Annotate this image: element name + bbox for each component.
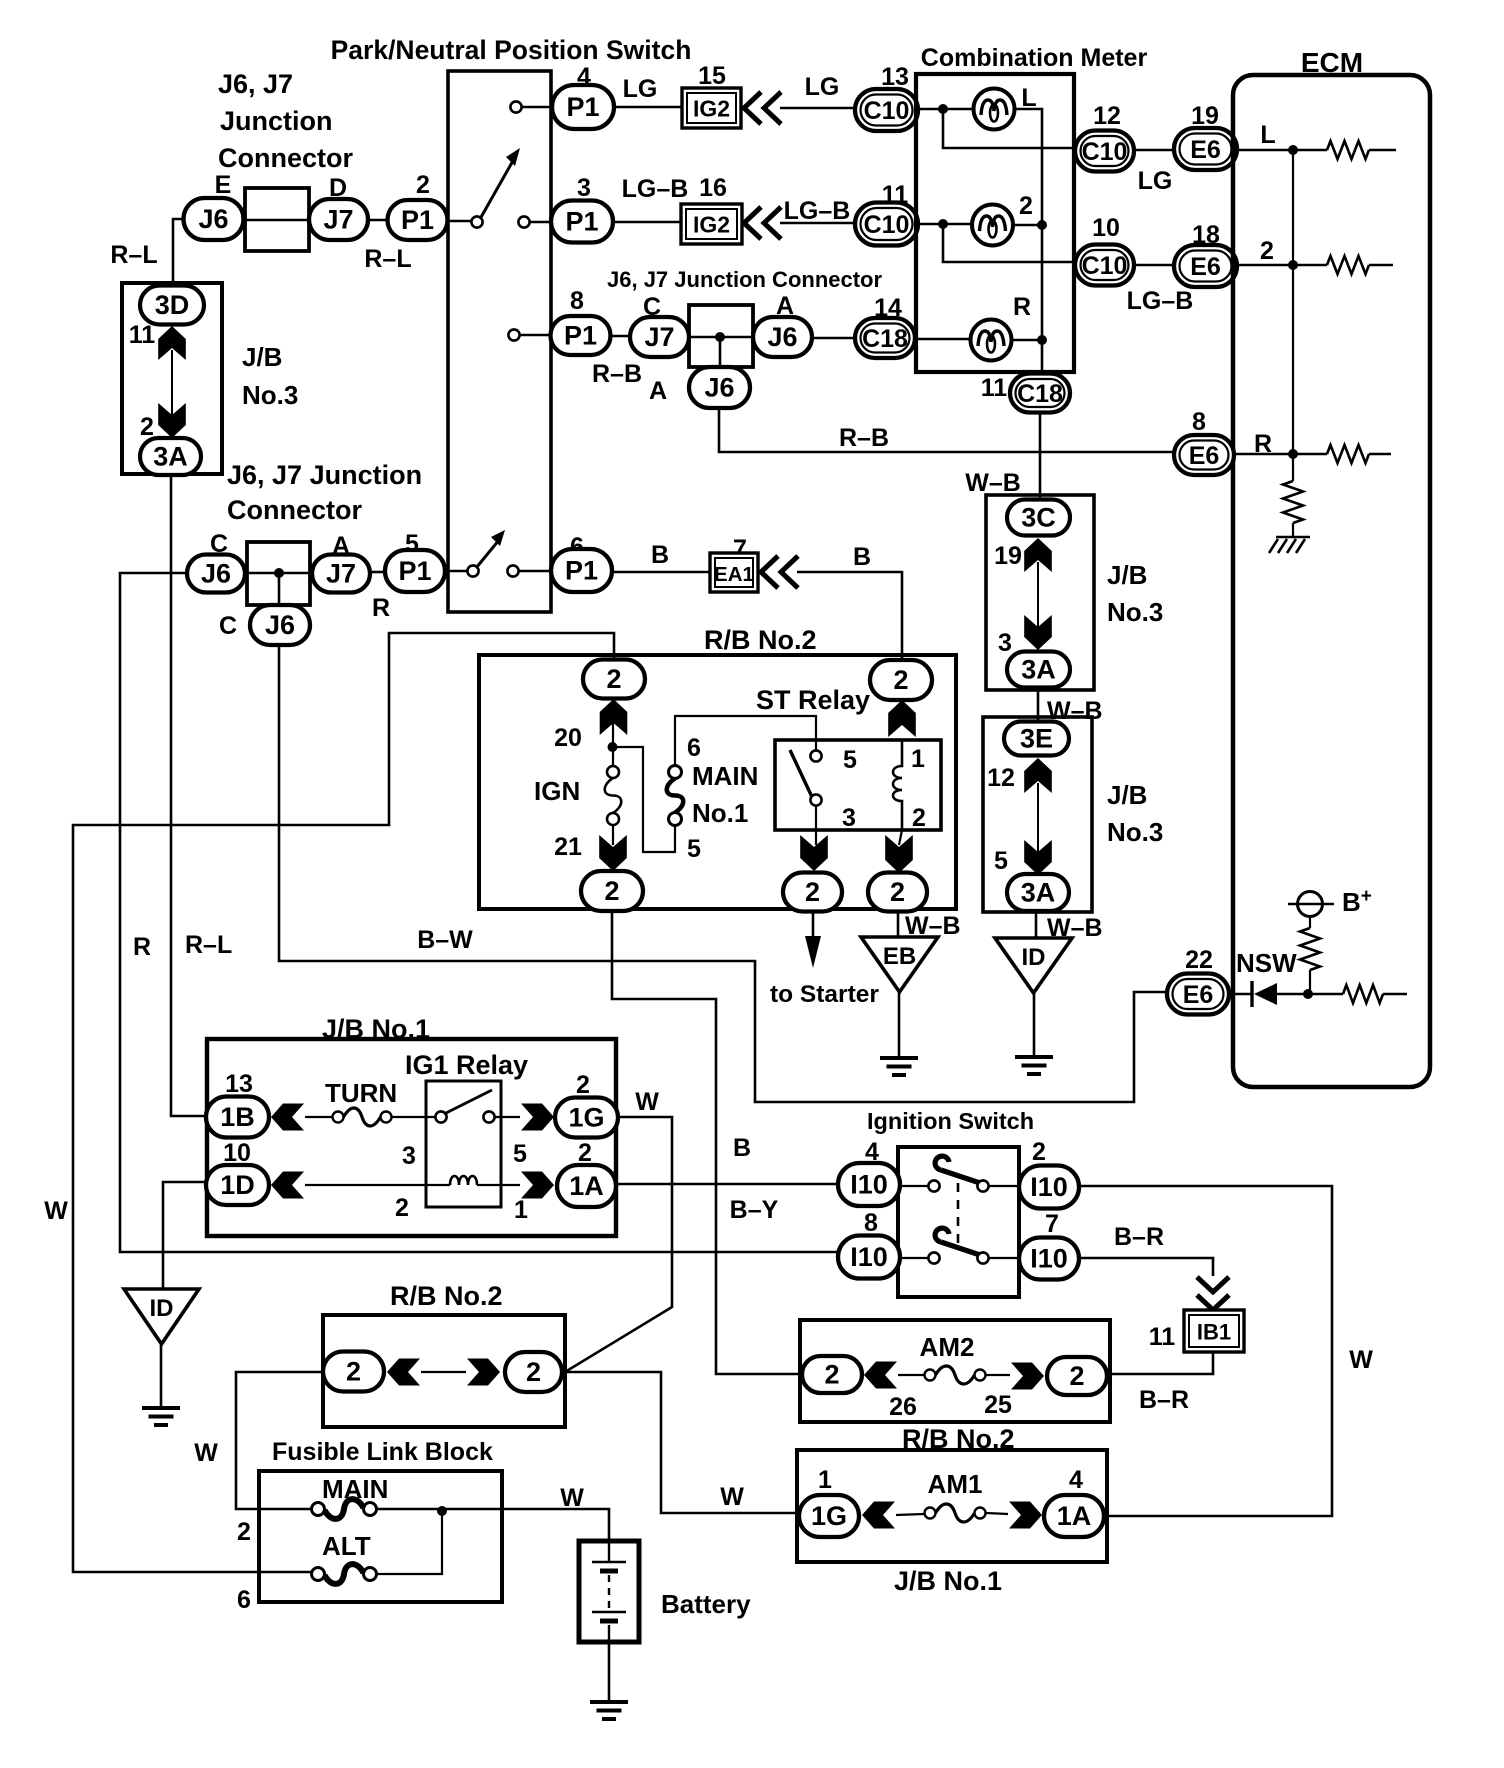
connector J6 (pin E) xyxy=(184,198,244,240)
wire I10-8 to contact xyxy=(900,1257,928,1259)
arrow down (coil out) xyxy=(885,835,913,873)
J/B No.3 block (3C-3A) xyxy=(986,495,1094,690)
svg-text:MAIN: MAIN xyxy=(692,761,758,791)
svg-text:IG1 Relay: IG1 Relay xyxy=(405,1050,528,1080)
connector I10 pin 2 xyxy=(1019,1166,1079,1209)
svg-text:J/B: J/B xyxy=(1107,780,1147,810)
wire C18-14 into meter xyxy=(916,338,970,341)
svg-text:LG: LG xyxy=(805,73,840,101)
resistor R-2 (ECM input 2) xyxy=(1327,256,1369,274)
EA1 output chevrons xyxy=(761,556,798,588)
wire P1-8 to J7-C xyxy=(610,335,630,338)
wire bus to pull resistor xyxy=(1292,454,1294,481)
svg-text:IG2: IG2 xyxy=(693,212,730,238)
wire after resistor L xyxy=(1369,149,1396,152)
wire B+ to resistor xyxy=(1309,917,1311,928)
connector 2 (IGN top) xyxy=(583,660,645,699)
arrow up to 2 (IGN) xyxy=(600,699,628,735)
fuse AM2 xyxy=(925,1366,986,1384)
wire after resistor R xyxy=(1369,453,1391,456)
arrow down to 3A (third) xyxy=(1024,840,1052,875)
svg-text:2: 2 xyxy=(526,1357,541,1387)
svg-text:Battery: Battery xyxy=(661,1589,751,1619)
connector I10 pin 4 xyxy=(838,1163,900,1206)
junction dot ECM L xyxy=(1288,145,1298,155)
svg-text:LG: LG xyxy=(623,75,658,103)
B+ supply symbol xyxy=(1288,892,1334,917)
connector I10 pin 8 xyxy=(838,1236,900,1279)
fusible link MAIN xyxy=(312,1499,377,1519)
ST relay contact (3) xyxy=(810,794,821,805)
svg-text:IB1: IB1 xyxy=(1197,1320,1231,1345)
wire IGN fuse to down arrow xyxy=(612,825,614,845)
wire through junction body E-D xyxy=(245,219,309,222)
svg-text:R: R xyxy=(372,594,390,622)
connector E6 pin 19 xyxy=(1174,128,1237,170)
wire contact to I10-7 xyxy=(989,1257,1019,1259)
svg-text:W–B: W–B xyxy=(965,469,1021,497)
ST relay box xyxy=(775,740,941,830)
arrow out left (lower RB) xyxy=(387,1359,420,1386)
indicator lamp L xyxy=(974,89,1015,130)
fuse TURN xyxy=(333,1108,392,1126)
svg-text:2: 2 xyxy=(578,1139,592,1167)
connector 2 (coil bottom) xyxy=(868,873,927,912)
arrow up to 2 (ST top) xyxy=(888,700,916,737)
svg-text:B: B xyxy=(733,1134,751,1162)
wire W net: IGN-2 top to fusible link ALT xyxy=(73,633,614,1572)
AM2 fuse block (R/B No.2) xyxy=(800,1320,1110,1422)
pull-down resistor (vertical) xyxy=(1283,481,1303,523)
svg-text:1A: 1A xyxy=(1057,1501,1092,1531)
svg-text:8: 8 xyxy=(570,287,584,315)
connector C10 pin 10 xyxy=(1075,245,1134,286)
svg-text:J7: J7 xyxy=(323,205,353,235)
wire R net: J6-C to ignition switch I10-8 xyxy=(120,573,838,1252)
svg-text:C18: C18 xyxy=(1017,380,1063,408)
fuse MAIN No.1 (vertical fusible link) xyxy=(667,766,684,826)
svg-text:1: 1 xyxy=(911,745,925,773)
wire lamp L to internal bus xyxy=(1015,109,1042,372)
svg-text:P1: P1 xyxy=(564,321,597,351)
svg-text:3A: 3A xyxy=(153,442,188,472)
diode D1 (NSW input) xyxy=(1250,981,1253,1007)
svg-text:W: W xyxy=(560,1484,584,1512)
svg-text:R/B No.2: R/B No.2 xyxy=(704,625,817,655)
connector J6 (lower C) xyxy=(250,605,310,645)
wire TURN to IG1 relay xyxy=(392,1116,436,1118)
junction connector body (E/D) xyxy=(245,188,309,251)
svg-text:J7: J7 xyxy=(326,559,356,589)
wire to starter xyxy=(812,911,815,940)
connector J6 (pin C) xyxy=(187,555,245,593)
svg-text:3C: 3C xyxy=(1021,503,1056,533)
svg-text:AM1: AM1 xyxy=(928,1469,983,1499)
svg-text:4: 4 xyxy=(1069,1466,1083,1494)
svg-text:3E: 3E xyxy=(1020,724,1053,754)
svg-text:C10: C10 xyxy=(1082,138,1128,166)
wire ID to ground (left) xyxy=(160,1344,163,1408)
arrow out right (AM2) xyxy=(1011,1363,1044,1390)
svg-text:10: 10 xyxy=(1092,214,1120,242)
svg-text:P1: P1 xyxy=(566,92,599,122)
IG1 relay coil xyxy=(450,1176,477,1185)
svg-text:J6: J6 xyxy=(265,610,295,640)
svg-text:EB: EB xyxy=(883,943,916,970)
resistor NSW series xyxy=(1343,985,1383,1003)
svg-text:19: 19 xyxy=(1191,102,1219,130)
wire arrow to AM2 fuse xyxy=(898,1374,924,1376)
svg-text:IGN: IGN xyxy=(534,776,580,806)
svg-text:J6, J7 Junction: J6, J7 Junction xyxy=(227,460,422,490)
arrow down to 3A xyxy=(158,403,186,438)
svg-text:C10: C10 xyxy=(864,211,910,239)
svg-text:5: 5 xyxy=(513,1140,527,1168)
connector C10 pin 11 xyxy=(855,203,918,246)
svg-text:2: 2 xyxy=(1032,1138,1046,1166)
wire J7-A to P1-5 xyxy=(370,571,385,574)
svg-text:R–L: R–L xyxy=(185,931,232,959)
svg-text:3: 3 xyxy=(842,804,856,832)
svg-text:19: 19 xyxy=(994,542,1022,570)
ignition lever (upper) xyxy=(935,1156,980,1183)
resistor R-L (ECM L input) xyxy=(1327,141,1369,159)
svg-text:ID: ID xyxy=(150,1295,174,1322)
junction dot bus/R xyxy=(1037,335,1047,345)
fuse connector IG2 (16) xyxy=(681,204,742,244)
arrow up to 3C xyxy=(1024,538,1052,572)
svg-text:R: R xyxy=(1013,293,1031,321)
svg-text:20: 20 xyxy=(554,724,582,752)
Fusible Link Block box xyxy=(259,1471,502,1602)
svg-text:22: 22 xyxy=(1185,946,1213,974)
connector P1 pin 2 xyxy=(388,200,448,240)
svg-text:2: 2 xyxy=(1069,1361,1084,1391)
svg-text:W: W xyxy=(194,1439,218,1467)
connector 1A xyxy=(557,1165,616,1207)
svg-text:J7: J7 xyxy=(644,322,674,352)
connector 3A (second) xyxy=(1007,652,1070,688)
svg-text:Connector: Connector xyxy=(218,143,353,173)
svg-text:3: 3 xyxy=(577,174,591,202)
ground connector ID (right) xyxy=(995,938,1072,993)
wire P1-5 into switch pole xyxy=(445,570,467,573)
J/B No.1 block xyxy=(207,1039,616,1236)
wire diode to node xyxy=(1277,993,1343,996)
svg-text:P1: P1 xyxy=(565,207,598,237)
svg-text:B: B xyxy=(651,541,669,569)
svg-text:C10: C10 xyxy=(1082,252,1128,280)
double chevron down to IB1 xyxy=(1197,1277,1229,1310)
svg-text:I10: I10 xyxy=(1030,1244,1068,1274)
svg-text:J6: J6 xyxy=(704,373,734,403)
wire 3A to ID ground connector xyxy=(1035,911,1038,938)
IG2-15 chevrons xyxy=(744,92,781,124)
svg-text:2: 2 xyxy=(1260,237,1274,265)
svg-text:J6, J7: J6, J7 xyxy=(218,69,293,99)
wire IB1 to AM2 connector 2 xyxy=(1107,1352,1213,1374)
connector J7 (pin D) xyxy=(309,199,368,240)
connector 3A xyxy=(140,438,201,475)
wire battery to ground xyxy=(608,1642,611,1702)
svg-text:W: W xyxy=(44,1197,68,1225)
svg-text:11: 11 xyxy=(129,321,156,349)
svg-text:1: 1 xyxy=(818,1466,832,1494)
svg-text:2: 2 xyxy=(890,877,905,907)
svg-text:P1: P1 xyxy=(565,556,598,586)
connector C10 pin 13 xyxy=(855,89,918,131)
switch contact pin 3 xyxy=(518,216,529,227)
svg-text:J/B: J/B xyxy=(242,342,282,372)
svg-text:Junction: Junction xyxy=(220,106,333,136)
wire AM2 fuse to arrow xyxy=(986,1374,1010,1376)
svg-text:TURN: TURN xyxy=(325,1078,397,1108)
arrow into 1A xyxy=(521,1172,554,1199)
connector J6 (pin A) xyxy=(753,317,812,357)
wire through junction body C-A xyxy=(247,572,310,575)
svg-text:Combination Meter: Combination Meter xyxy=(921,44,1148,72)
svg-text:6: 6 xyxy=(237,1586,251,1614)
svg-text:B–Y: B–Y xyxy=(730,1196,779,1224)
connector P1 pin 3 xyxy=(551,201,613,243)
svg-text:3A: 3A xyxy=(1021,878,1056,908)
wire C10-10 to E6-18 xyxy=(1134,264,1174,267)
connector 1G xyxy=(555,1098,618,1138)
svg-text:J6: J6 xyxy=(198,204,228,234)
junction tap dot xyxy=(274,568,284,578)
ST relay coil xyxy=(893,740,902,830)
connector J7 (pin A) xyxy=(312,555,370,593)
connector C18 pin 14 xyxy=(855,318,915,358)
svg-text:8: 8 xyxy=(864,1209,878,1237)
ignition contact IG2 xyxy=(977,1180,988,1191)
wire I10-4 to contact xyxy=(900,1185,928,1187)
svg-text:2: 2 xyxy=(606,664,621,694)
Combination Meter block xyxy=(916,74,1074,372)
wire contact3 to P1-3 xyxy=(530,221,551,224)
switch lever (N position) xyxy=(476,540,499,568)
wire resistor to chassis ground xyxy=(1292,523,1294,537)
fuse connector IG2 (15) xyxy=(682,88,741,128)
svg-text:6: 6 xyxy=(687,734,701,762)
svg-text:11: 11 xyxy=(981,374,1008,402)
wire after NSW resistor xyxy=(1383,993,1407,996)
tap wire down to J6-C2 xyxy=(278,573,281,605)
svg-text:2: 2 xyxy=(346,1357,361,1387)
connector P1 pin 6 xyxy=(551,549,612,592)
svg-text:R–B: R–B xyxy=(592,360,642,388)
svg-text:1G: 1G xyxy=(811,1501,847,1531)
svg-text:I10: I10 xyxy=(850,1242,888,1272)
arrow out left (AM2) xyxy=(864,1362,897,1389)
wire AM1 fuse to arrow xyxy=(986,1513,1008,1514)
svg-text:J/B No.1: J/B No.1 xyxy=(322,1014,430,1044)
svg-text:Ignition Switch: Ignition Switch xyxy=(867,1108,1034,1134)
svg-text:5: 5 xyxy=(687,835,701,863)
wire C10-12 to E6-19 xyxy=(1134,149,1174,152)
connector E6 pin 22 xyxy=(1167,974,1229,1015)
wire L-row tap to C10-12 xyxy=(943,109,1075,148)
wire IG2 to C10-13 xyxy=(780,107,855,110)
junction dot MAIN/ALT xyxy=(437,1506,447,1516)
wire MAIN-6 to ST relay contact xyxy=(675,716,816,766)
arrow up to 3D xyxy=(158,326,186,360)
ground symbol (battery) xyxy=(590,1702,628,1719)
svg-text:AM2: AM2 xyxy=(920,1332,975,1362)
connector C10 pin 12 xyxy=(1075,131,1134,172)
svg-text:J6: J6 xyxy=(201,559,231,589)
arrow into 1D xyxy=(271,1172,304,1199)
connector J7 (pin C) xyxy=(630,317,689,357)
internal link 3E-3A xyxy=(1037,783,1039,852)
internal link 3D-3A xyxy=(171,350,173,415)
svg-text:3D: 3D xyxy=(155,290,190,320)
tap wire to J6-A2 xyxy=(719,337,722,367)
ignition contact AM1 xyxy=(928,1252,939,1263)
svg-text:R/B No.2: R/B No.2 xyxy=(390,1281,503,1311)
wire coil to arrow xyxy=(477,1184,520,1186)
resistor R-R (ECM R input) xyxy=(1327,445,1369,463)
connector 2 (lower RB left) xyxy=(323,1352,384,1392)
wire 1D arrow to relay coil xyxy=(305,1184,450,1186)
wire coil to down arrow xyxy=(899,830,902,845)
svg-text:2: 2 xyxy=(395,1194,409,1222)
svg-text:R–L: R–L xyxy=(110,241,157,269)
wire contact6 to P1-6 xyxy=(519,570,551,573)
svg-text:E6: E6 xyxy=(1190,253,1221,281)
wire 1D to ID ground connector xyxy=(163,1182,206,1289)
fuse connector EA1 xyxy=(710,553,758,592)
wire EB to ground xyxy=(898,992,901,1058)
Battery xyxy=(579,1541,639,1642)
wire EA1 to ST relay coil connector 2 xyxy=(797,572,902,660)
connector 3A (third) xyxy=(1007,874,1069,911)
svg-text:J6, J7 Junction Connector: J6, J7 Junction Connector xyxy=(607,267,882,292)
svg-text:Park/Neutral Position Switch: Park/Neutral Position Switch xyxy=(331,35,692,65)
svg-text:R–B: R–B xyxy=(839,424,889,452)
svg-text:5: 5 xyxy=(994,847,1008,875)
wire R-B net: J6 lower to E6-8 xyxy=(719,408,1174,452)
svg-text:ALT: ALT xyxy=(322,1531,371,1561)
svg-text:W: W xyxy=(635,1088,659,1116)
wire E6-22 to diode xyxy=(1229,993,1252,996)
junction connector body (C/A) top right xyxy=(689,305,753,367)
svg-text:1A: 1A xyxy=(569,1171,604,1201)
ignition linkage (dashed) xyxy=(957,1183,960,1248)
wire lower RB right to AM1 1G (W net) xyxy=(562,1372,799,1513)
svg-text:5: 5 xyxy=(843,746,857,774)
svg-text:B–R: B–R xyxy=(1114,1223,1164,1251)
svg-text:IG2: IG2 xyxy=(693,96,730,122)
arrow out right (lower RB) xyxy=(467,1359,500,1386)
wire ST contact 3 to down arrow xyxy=(815,806,817,845)
svg-text:1: 1 xyxy=(514,1196,528,1224)
connector E6 pin 18 xyxy=(1174,245,1237,287)
wire P1-2 into switch pole xyxy=(447,220,471,223)
wire ID to ground xyxy=(1033,993,1036,1057)
wire relay 5 to arrow xyxy=(495,1116,520,1118)
wire ALT output to MAIN node xyxy=(377,1509,442,1574)
connector 2 (AM2 left) xyxy=(802,1356,862,1393)
ignition contact AM2 xyxy=(928,1180,939,1191)
junction dot ECM 2 xyxy=(1288,260,1298,270)
svg-text:J/B No.1: J/B No.1 xyxy=(894,1566,1002,1596)
ground symbol (EB) xyxy=(880,1058,918,1075)
wire 2-row tap to C10-10 xyxy=(943,224,1075,262)
svg-text:LG–B: LG–B xyxy=(784,197,851,225)
svg-text:2: 2 xyxy=(824,1360,839,1390)
wire 1A to ignition switch I10-4 (B-Y) xyxy=(616,1183,838,1186)
wire J7-D to P1-2 xyxy=(368,219,388,222)
switch contact pin 6 xyxy=(507,565,518,576)
junction dot NSW xyxy=(1303,989,1313,999)
svg-text:12: 12 xyxy=(1093,102,1121,130)
wire after resistor 2 xyxy=(1369,264,1393,267)
ignition lever (lower) xyxy=(935,1228,980,1255)
indicator lamp 2 xyxy=(972,205,1013,246)
fuse connector IB1 xyxy=(1184,1310,1244,1352)
ground symbol (ID right) xyxy=(1015,1057,1053,1074)
wire E6-18 into ECM xyxy=(1237,264,1327,267)
connector 1A (AM1) xyxy=(1044,1495,1104,1537)
svg-text:15: 15 xyxy=(698,62,726,90)
J/B No.3 block (left) xyxy=(122,283,222,474)
svg-text:2: 2 xyxy=(140,413,154,441)
svg-text:2: 2 xyxy=(912,804,926,832)
svg-text:10: 10 xyxy=(223,1139,251,1167)
ground connector EB xyxy=(861,937,938,992)
svg-text:No.3: No.3 xyxy=(242,380,298,410)
connector 1D xyxy=(206,1165,269,1205)
connector 2 (IGN bottom) xyxy=(581,871,643,911)
IG1 relay lever xyxy=(444,1090,492,1114)
junction dot 20 xyxy=(608,742,618,752)
svg-text:13: 13 xyxy=(225,1070,253,1098)
internal link 3C-3A xyxy=(1037,562,1039,627)
Ignition switch box xyxy=(898,1147,1019,1297)
svg-text:7: 7 xyxy=(1045,1210,1059,1238)
wire C18-11 down to 3C (W-B) xyxy=(1039,412,1042,500)
svg-text:E: E xyxy=(215,171,232,199)
wire pull-up to NSW node xyxy=(1308,970,1310,994)
svg-text:E6: E6 xyxy=(1183,981,1214,1009)
svg-text:L: L xyxy=(1260,121,1275,149)
internal wire lower RB xyxy=(421,1371,466,1373)
svg-text:16: 16 xyxy=(699,174,727,202)
svg-text:ECM: ECM xyxy=(1301,47,1363,78)
J/B No.3 block (3E-3A) xyxy=(983,717,1092,912)
connector 3E xyxy=(1004,722,1069,756)
connector P1 pin 5 xyxy=(385,550,445,592)
svg-text:B: B xyxy=(853,543,871,571)
arrow out left (AM1) xyxy=(862,1502,895,1529)
switch contact pin 4 (P1-4) xyxy=(510,101,521,112)
svg-text:26: 26 xyxy=(889,1393,917,1421)
junction dot bus/2 xyxy=(1037,220,1047,230)
svg-text:Connector: Connector xyxy=(227,495,362,525)
fusible link ALT xyxy=(312,1564,377,1584)
IG1 relay contact (5) xyxy=(483,1111,494,1122)
fuse AM1 xyxy=(925,1504,986,1522)
wire arrow to TURN fuse xyxy=(305,1116,332,1118)
svg-text:EA1: EA1 xyxy=(714,563,754,586)
wire arrow to AM1 fuse xyxy=(896,1514,924,1515)
switch contact pin 8 xyxy=(508,329,519,340)
wire through junction body xyxy=(689,336,753,339)
wire J6-E to J/B No.3 3D xyxy=(173,219,183,287)
IG1 relay box xyxy=(426,1081,501,1207)
wire P1-4 to IG2 xyxy=(614,106,682,109)
